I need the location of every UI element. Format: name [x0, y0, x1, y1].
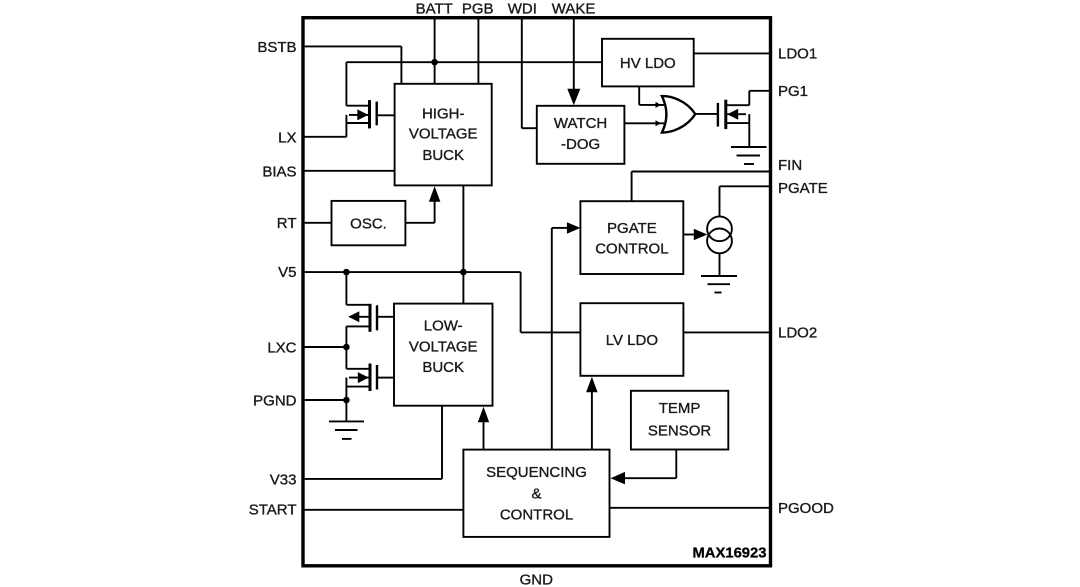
svg-text:GND: GND	[520, 572, 554, 587]
svg-text:VOLTAGE: VOLTAGE	[409, 126, 478, 143]
svg-text:PGATE: PGATE	[778, 180, 828, 197]
svg-text:TEMP: TEMP	[659, 400, 701, 417]
svg-text:-DOG: -DOG	[561, 136, 600, 153]
svg-text:BUCK: BUCK	[422, 359, 464, 376]
svg-text:LOW-: LOW-	[424, 318, 463, 335]
svg-text:OSC.: OSC.	[350, 215, 387, 232]
svg-text:WDI: WDI	[508, 1, 537, 18]
svg-text:CONTROL: CONTROL	[500, 507, 573, 524]
svg-text:SENSOR: SENSOR	[648, 423, 712, 440]
svg-text:&: &	[531, 486, 541, 503]
svg-text:SEQUENCING: SEQUENCING	[486, 464, 587, 481]
svg-text:V33: V33	[270, 471, 297, 488]
svg-text:BUCK: BUCK	[422, 147, 464, 164]
svg-text:PGATE: PGATE	[607, 220, 657, 237]
svg-text:PG1: PG1	[778, 83, 808, 100]
svg-text:MAX16923: MAX16923	[692, 546, 766, 562]
svg-text:LX: LX	[278, 130, 296, 147]
svg-text:RT: RT	[277, 215, 297, 232]
svg-text:BATT: BATT	[416, 1, 453, 18]
svg-text:VOLTAGE: VOLTAGE	[409, 338, 478, 355]
svg-text:CONTROL: CONTROL	[595, 240, 668, 257]
svg-text:BSTB: BSTB	[257, 39, 296, 56]
svg-text:LXC: LXC	[267, 339, 296, 356]
svg-text:WAKE: WAKE	[552, 1, 596, 18]
svg-text:V5: V5	[278, 264, 296, 281]
svg-text:HV LDO: HV LDO	[620, 55, 676, 72]
svg-text:LDO2: LDO2	[778, 324, 817, 341]
svg-text:LDO1: LDO1	[778, 46, 817, 63]
svg-text:PGND: PGND	[253, 392, 297, 409]
svg-text:LV LDO: LV LDO	[606, 332, 658, 349]
svg-text:FIN: FIN	[778, 157, 802, 174]
svg-text:WATCH: WATCH	[554, 115, 607, 132]
svg-text:HIGH-: HIGH-	[422, 106, 465, 123]
svg-text:PGB: PGB	[462, 1, 494, 18]
svg-text:START: START	[249, 502, 297, 519]
svg-text:PGOOD: PGOOD	[778, 500, 834, 517]
svg-text:BIAS: BIAS	[262, 163, 296, 180]
